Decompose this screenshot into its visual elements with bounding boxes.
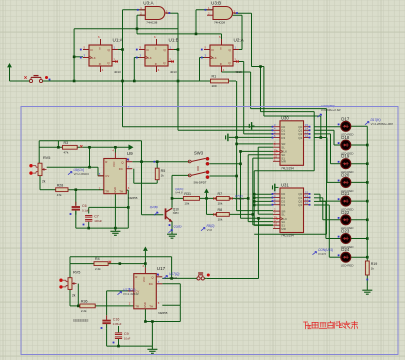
svg-text:NPN: NPN — [173, 211, 179, 215]
svg-text:10k: 10k — [218, 218, 223, 222]
svg-text:S: S — [155, 47, 157, 51]
svg-text:D24: D24 — [341, 247, 350, 252]
svg-text:V=4.8: V=4.8 — [175, 191, 183, 195]
svg-text:RV5: RV5 — [73, 271, 80, 275]
svg-text:SW-DPDT: SW-DPDT — [194, 181, 207, 185]
svg-text:DC: DC — [149, 282, 153, 286]
svg-text:SW3: SW3 — [194, 151, 204, 156]
svg-text:R: R — [220, 62, 222, 66]
svg-text:V=0.5: V=0.5 — [169, 276, 177, 280]
svg-text:U3:A: U3:A — [143, 1, 154, 6]
svg-text:Q10: Q10 — [173, 208, 179, 212]
svg-text:74HC08: 74HC08 — [214, 21, 225, 25]
svg-text:10k: 10k — [184, 202, 189, 206]
svg-text:U3:B: U3:B — [211, 1, 221, 6]
svg-text:Q2(E): Q2(E) — [174, 225, 182, 229]
svg-text:0.1uF: 0.1uF — [82, 209, 89, 213]
svg-text:RV5: RV5 — [43, 156, 50, 160]
svg-text:U9: U9 — [127, 151, 133, 156]
svg-text:2k: 2k — [72, 293, 76, 297]
svg-text:R1: R1 — [212, 75, 217, 79]
svg-text:CLK: CLK — [91, 56, 96, 60]
svg-text:VI=1.00001: VI=1.00001 — [74, 172, 90, 176]
svg-text:2k: 2k — [42, 180, 46, 184]
svg-text:LED-RED: LED-RED — [341, 264, 354, 268]
svg-text:R: R — [155, 62, 157, 66]
svg-text:Q3: Q3 — [298, 203, 302, 207]
svg-text:R5: R5 — [161, 169, 166, 173]
svg-text:D3: D3 — [281, 136, 285, 140]
svg-text:VCC: VCC — [112, 161, 116, 167]
svg-text:U31: U31 — [281, 183, 289, 188]
svg-text:S: S — [99, 47, 101, 51]
svg-text:R3: R3 — [64, 141, 69, 145]
svg-text:U30: U30 — [281, 115, 289, 120]
svg-text:D18: D18 — [341, 135, 350, 140]
svg-text:R7: R7 — [218, 192, 223, 196]
svg-text:D21: D21 — [341, 191, 350, 196]
svg-text:V=0: V=0 — [207, 228, 213, 232]
svg-text:U17: U17 — [157, 266, 166, 271]
svg-text:C7: C7 — [94, 215, 99, 219]
svg-text:VI=1.33333: VI=1.33333 — [123, 292, 139, 296]
svg-text:C16: C16 — [113, 318, 120, 322]
svg-text:S: S — [220, 47, 222, 51]
svg-text:NE555: NE555 — [128, 196, 138, 200]
svg-text:CLK: CLK — [212, 56, 217, 60]
svg-text:CLK: CLK — [147, 56, 152, 60]
svg-text:D17: D17 — [341, 116, 350, 121]
svg-text:D3: D3 — [281, 203, 285, 207]
svg-text:D19: D19 — [341, 154, 350, 159]
svg-text:MR: MR — [281, 227, 286, 231]
svg-text:47k: 47k — [64, 151, 69, 155]
svg-text:R36: R36 — [81, 300, 88, 304]
svg-text:U30(QB0): U30(QB0) — [321, 104, 335, 108]
svg-text:R19: R19 — [371, 262, 378, 266]
svg-text:VCC: VCC — [142, 276, 146, 282]
svg-text:GND: GND — [143, 302, 147, 308]
svg-text:Q2(B): Q2(B) — [150, 205, 158, 209]
svg-text:4013: 4013 — [114, 70, 121, 74]
svg-text:10k: 10k — [218, 202, 223, 206]
svg-text:2.2k: 2.2k — [81, 309, 87, 313]
svg-text:R: R — [99, 62, 101, 66]
svg-text:U1:A: U1:A — [113, 38, 124, 43]
svg-text:V=4.28882e-008: V=4.28882e-008 — [371, 122, 394, 126]
svg-text:0.05uF: 0.05uF — [113, 322, 122, 326]
svg-text:TH: TH — [149, 304, 153, 308]
svg-text:U2:A: U2:A — [234, 38, 245, 43]
svg-text:D23: D23 — [341, 229, 350, 234]
svg-text:TR: TR — [105, 189, 109, 193]
svg-text:MR: MR — [281, 160, 286, 164]
svg-text:R4: R4 — [95, 257, 100, 261]
svg-text:TH: TH — [119, 189, 123, 193]
svg-text:NE555: NE555 — [158, 311, 168, 315]
svg-text:R28: R28 — [57, 183, 64, 187]
svg-text:DC: DC — [119, 167, 123, 171]
svg-text:1k: 1k — [161, 174, 165, 178]
svg-text:V=0.5: V=0.5 — [318, 252, 326, 256]
svg-text:1k: 1k — [371, 266, 375, 270]
svg-text:100uF: 100uF — [94, 219, 102, 223]
svg-text:74LS194: 74LS194 — [281, 234, 294, 238]
svg-text:4013: 4013 — [235, 70, 242, 74]
svg-text:TR: TR — [135, 304, 139, 308]
svg-text:74HC08: 74HC08 — [146, 21, 157, 25]
svg-text:R8: R8 — [218, 208, 223, 212]
svg-text:2.2k: 2.2k — [95, 267, 101, 271]
svg-text:D22: D22 — [341, 210, 350, 215]
svg-text:GND: GND — [113, 187, 117, 193]
svg-text:47k: 47k — [57, 193, 62, 197]
svg-text:CV: CV — [105, 174, 109, 178]
svg-text:R31: R31 — [184, 192, 191, 196]
svg-text:4013: 4013 — [170, 70, 177, 74]
svg-text:74LS194: 74LS194 — [281, 166, 294, 170]
svg-text:0.00000e+0 SR: 0.00000e+0 SR — [321, 108, 341, 112]
svg-text:Q3: Q3 — [298, 136, 302, 140]
svg-text:100: 100 — [212, 84, 217, 88]
svg-text:U1:B: U1:B — [169, 38, 179, 43]
svg-text:C9: C9 — [124, 332, 129, 336]
svg-text:10uF: 10uF — [124, 337, 131, 341]
svg-text:V=4.30: V=4.30 — [235, 197, 244, 201]
svg-text:D20: D20 — [341, 172, 350, 177]
svg-text:C6: C6 — [82, 204, 87, 208]
